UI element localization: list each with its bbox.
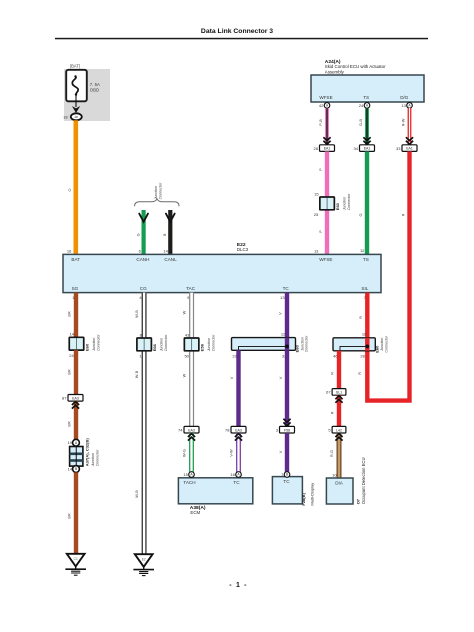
wire colour W-G xyxy=(181,449,186,457)
pin 13 xyxy=(401,103,406,108)
wire B CANL from junction connector xyxy=(168,210,172,255)
pin 50 E58 xyxy=(184,353,189,358)
wire colour G (TS) xyxy=(358,213,363,216)
pin label CANL xyxy=(164,257,177,262)
svg-text:P-B: P-B xyxy=(318,119,323,126)
pin 12 E60 (TC) xyxy=(281,332,286,337)
connector circle A (A37 pin 19) xyxy=(73,439,80,446)
box F28 multi-display xyxy=(272,477,302,504)
wire V E60 to EA3-78 xyxy=(236,350,240,426)
svg-text:E2: E2 xyxy=(142,558,146,562)
connector EA3 pin 87 xyxy=(62,395,83,402)
pin label DIA xyxy=(335,481,344,486)
svg-text:10: 10 xyxy=(332,472,337,477)
svg-text:EA1: EA1 xyxy=(324,147,331,151)
svg-text:Connector: Connector xyxy=(347,193,351,210)
wire V E60 to F58 xyxy=(285,350,289,426)
junction connector E58 (TAC) xyxy=(184,338,199,351)
svg-text:W-G: W-G xyxy=(181,449,186,457)
connector circle A (ECM TACH pin 15) xyxy=(189,472,195,478)
pin 28 E60 (SIL) xyxy=(360,354,365,359)
wire R SL1 to L42 xyxy=(337,395,341,426)
wire colour O xyxy=(67,188,72,191)
svg-text:15: 15 xyxy=(183,472,188,477)
pin label CG xyxy=(140,286,147,291)
svg-text:3: 3 xyxy=(276,427,279,432)
svg-text:SG: SG xyxy=(72,286,79,291)
svg-text:33: 33 xyxy=(396,146,401,151)
svg-text:W-B: W-B xyxy=(134,370,139,378)
svg-text:Connector: Connector xyxy=(164,334,168,351)
svg-text:E58: E58 xyxy=(200,343,205,351)
svg-text:E60: E60 xyxy=(375,345,380,353)
svg-text:C1: C1 xyxy=(74,557,78,561)
wire colour W-B 3 xyxy=(134,490,139,498)
wire W-G EA3 to ECM TACH xyxy=(189,433,194,472)
pin 14 E60 (SG) xyxy=(70,332,75,337)
chevrons into EA1 (WFSE) xyxy=(323,137,330,144)
ground point C1 xyxy=(65,554,86,575)
svg-text:Assembly: Assembly xyxy=(325,69,345,74)
wire O (orange) fuse to E22 BAT xyxy=(74,120,79,255)
box A38 ECM xyxy=(178,478,252,504)
pin 15 junction E60 xyxy=(314,192,319,197)
svg-text:SIL: SIL xyxy=(361,286,368,291)
pin 43 E58 xyxy=(185,332,190,337)
svg-text:P: P xyxy=(318,230,323,233)
fuse block shading xyxy=(64,69,110,121)
component name DLC3 xyxy=(237,247,249,252)
wire colour W 1 xyxy=(182,310,187,314)
svg-text:13: 13 xyxy=(314,249,319,254)
label E66 junction xyxy=(152,334,168,352)
svg-text:TS: TS xyxy=(363,95,369,100)
pin 32 E60 (TC) xyxy=(282,353,287,358)
component id A24(A) xyxy=(325,59,341,65)
svg-text:R: R xyxy=(330,372,335,375)
pin 19 A37 xyxy=(68,440,73,445)
svg-text:P: P xyxy=(318,168,323,171)
svg-text:24: 24 xyxy=(69,353,74,358)
svg-text:DLC3: DLC3 xyxy=(237,247,249,252)
svg-text:50: 50 xyxy=(184,353,189,358)
wire BR E22 SG to E60 xyxy=(74,293,78,338)
svg-text:V: V xyxy=(278,450,283,453)
wire R E22 SIL to E60 xyxy=(365,293,369,340)
svg-text:V-W: V-W xyxy=(228,449,233,457)
connector EA1 pin 33 xyxy=(396,145,417,152)
junction connector E60 (SIL) box xyxy=(333,338,375,351)
arrow onto CANL wire xyxy=(166,214,175,222)
pin label TC (F28) xyxy=(283,479,290,484)
chevrons into F58 xyxy=(283,419,290,426)
svg-text:BR: BR xyxy=(67,421,72,427)
chevrons into EA1 (D/G) xyxy=(406,137,413,144)
wire colour BR 2 xyxy=(67,369,72,375)
svg-text:D/G: D/G xyxy=(400,95,409,100)
svg-text:G: G xyxy=(135,233,140,236)
svg-text:(BAT): (BAT) xyxy=(70,64,81,69)
fuse OBD 7.5A body xyxy=(66,70,87,102)
pin 42 xyxy=(319,103,324,108)
wire fuse to connector xyxy=(75,96,77,108)
box A24 skid control ECU xyxy=(311,75,424,102)
svg-text:R-G: R-G xyxy=(329,450,334,457)
svg-text:ECM: ECM xyxy=(190,510,200,515)
wire colour R 2 xyxy=(330,372,335,375)
svg-text:WFSE: WFSE xyxy=(319,257,332,262)
wire colour V-W xyxy=(228,449,233,457)
svg-text:EA3: EA3 xyxy=(72,396,79,400)
svg-text:Connector: Connector xyxy=(211,334,215,351)
label (BAT) xyxy=(70,64,81,69)
wire W-B E22 CG to ground xyxy=(142,293,147,555)
label E60 junction (WFSE) xyxy=(335,193,351,211)
wire colour W-B 2 xyxy=(134,370,139,378)
svg-text:CANL: CANL xyxy=(164,257,177,262)
svg-text:F58: F58 xyxy=(284,428,290,432)
brace junction connector (CAN) xyxy=(135,199,179,206)
pin label TAC xyxy=(186,286,196,291)
svg-text:78: 78 xyxy=(225,427,230,432)
svg-text:A37(A), C32(B): A37(A), C32(B) xyxy=(85,438,90,467)
label O7 occupant detection ECU xyxy=(356,458,366,505)
wire R-W A24 D/G to EA1 xyxy=(408,108,412,144)
wire P EA1 to E22 WFSE xyxy=(325,151,329,254)
svg-text:EA3: EA3 xyxy=(235,428,242,432)
pin 16 E22 BAT xyxy=(67,248,72,253)
svg-text:G: G xyxy=(358,213,363,216)
svg-text:TACH: TACH xyxy=(183,480,195,485)
connector EA1 pin 34 xyxy=(354,145,375,152)
wire R-G L42 to DIA xyxy=(337,434,342,478)
label F28(B) multi-display xyxy=(301,483,315,506)
svg-text:Connector: Connector xyxy=(159,182,163,199)
chevrons below SL1 xyxy=(335,396,342,403)
pin 24 xyxy=(359,103,364,108)
svg-text:5: 5 xyxy=(328,427,331,432)
pin 15 ECM TACH xyxy=(183,472,188,477)
svg-text:V: V xyxy=(278,376,283,379)
pin 18 E60 (SIL) xyxy=(362,332,367,337)
wire colour B (CANL) xyxy=(162,233,167,236)
pin label TC (E22) xyxy=(283,286,290,291)
wire colour V 3 xyxy=(278,376,283,379)
wire V through E60 (TC) xyxy=(285,338,289,351)
component id A38(A) xyxy=(190,505,206,511)
pin 10 DIA xyxy=(332,472,337,477)
wire colour R (SIL) xyxy=(358,316,363,319)
page title xyxy=(201,28,273,35)
svg-text:R-W: R-W xyxy=(400,118,405,126)
pin 18 at oval xyxy=(63,114,68,119)
svg-text:13: 13 xyxy=(401,103,406,108)
label Connector (CAN brace) xyxy=(159,182,163,199)
wire R through E60 (SIL) xyxy=(365,338,369,351)
label E60 junction (TC) xyxy=(295,335,309,352)
svg-text:R: R xyxy=(330,411,335,414)
wire P-B A24 WFSE to EA1 xyxy=(325,108,329,144)
svg-text:R: R xyxy=(400,213,405,216)
connector EA3 pin 74 xyxy=(178,426,199,433)
svg-text:42: 42 xyxy=(319,103,324,108)
svg-text:28: 28 xyxy=(360,354,365,359)
label E60 junction (SIL) xyxy=(375,335,389,353)
chevrons below EA3-78 xyxy=(235,434,242,441)
header rule xyxy=(55,38,428,40)
wire colour R 4 xyxy=(330,411,335,414)
ground point E2 xyxy=(133,554,154,575)
pin label SG xyxy=(72,286,79,291)
svg-text:BR: BR xyxy=(67,513,72,519)
pin 9 TAC xyxy=(187,295,190,300)
chevrons below L42 xyxy=(335,434,342,441)
connector L42 pin 5 xyxy=(328,426,346,433)
connector circle B (A37 pin 14) xyxy=(73,466,80,473)
pin 24 E60 (SG) xyxy=(69,353,74,358)
svg-text:F28(B): F28(B) xyxy=(301,492,306,505)
wire colour P (lower) xyxy=(318,230,323,233)
junction connector E60 (WFSE) xyxy=(320,197,335,210)
junction connector E60 (TC) box xyxy=(232,338,296,351)
svg-text:Connector: Connector xyxy=(305,335,309,352)
pin label BAT xyxy=(71,257,80,262)
svg-text:R: R xyxy=(357,372,362,375)
pin 14 E22 CANL xyxy=(163,249,168,254)
svg-text:TC: TC xyxy=(283,286,290,291)
wire W E22 TAC to EA3 xyxy=(189,293,194,427)
svg-text:E66: E66 xyxy=(152,343,157,351)
wire colour BR 1 xyxy=(67,311,72,317)
svg-text:W: W xyxy=(182,310,187,314)
block A37/C32 junction connector xyxy=(70,447,83,467)
pin label WFSE (A24) xyxy=(319,95,332,100)
wire R EA1-33 down, across, up to E60 pin 28 xyxy=(367,151,409,400)
svg-text:74: 74 xyxy=(178,427,183,432)
pin 13 E22 WFSE xyxy=(314,249,319,254)
svg-text:34: 34 xyxy=(354,146,359,151)
pin 8 E66 xyxy=(140,332,143,337)
svg-text:Connector: Connector xyxy=(384,335,388,352)
pin label WFSE (E22) xyxy=(319,257,332,262)
pin label TS (A24) xyxy=(363,95,369,100)
svg-text:16: 16 xyxy=(67,248,72,253)
wire V E22 TC to E60 xyxy=(285,293,289,345)
wire G EA1 to E22 TS xyxy=(365,151,369,254)
svg-text:CG: CG xyxy=(140,286,147,291)
wire colour V 1 xyxy=(278,312,283,315)
svg-text:2D: 2D xyxy=(75,115,79,119)
svg-text:18: 18 xyxy=(362,332,367,337)
wire colour R 3 xyxy=(357,372,362,375)
pin 16 ECM TC xyxy=(230,472,235,477)
wire colour G (CANH) xyxy=(135,233,140,236)
svg-text:18: 18 xyxy=(63,114,68,119)
junction connector E60 (SG) xyxy=(69,337,84,350)
chevrons below EA3-87 xyxy=(72,402,79,409)
pin 7 SIL xyxy=(364,295,367,300)
svg-text:BR: BR xyxy=(67,369,72,375)
label A37(A), C32(B) junction connector xyxy=(85,438,100,468)
svg-text:TS: TS xyxy=(363,257,369,262)
svg-text:TC: TC xyxy=(283,479,290,484)
connector EA1 pin 28 xyxy=(314,145,335,152)
svg-text:6: 6 xyxy=(139,249,142,254)
svg-text:67: 67 xyxy=(326,390,331,395)
svg-text:TC: TC xyxy=(233,480,240,485)
wire G-B A24 TS to EA1 xyxy=(365,108,369,144)
pin label TACH xyxy=(183,480,195,485)
svg-text:BR: BR xyxy=(67,311,72,317)
wire colour R-W xyxy=(400,118,405,126)
chevrons below EA3-74 xyxy=(188,434,195,441)
svg-text:V: V xyxy=(229,376,234,379)
svg-text:DIA: DIA xyxy=(335,481,344,486)
wire BR A37 to ground xyxy=(74,472,78,554)
svg-text:Occupant Detection ECU: Occupant Detection ECU xyxy=(361,458,366,505)
pin 1 E66 xyxy=(139,353,142,358)
wire G CANH from junction connector xyxy=(142,210,146,255)
connector circle A (TS pin 24) xyxy=(364,103,370,109)
svg-text:Junction: Junction xyxy=(154,186,158,200)
component name ECM xyxy=(190,510,200,515)
pin 13 TC xyxy=(280,295,285,300)
label Junction (CAN brace) xyxy=(154,186,158,200)
svg-text:O: O xyxy=(67,188,72,191)
svg-text:W-B: W-B xyxy=(134,310,139,318)
svg-text:EA1: EA1 xyxy=(406,147,413,151)
svg-text:WFSE: WFSE xyxy=(319,95,332,100)
component name line1 xyxy=(325,64,386,69)
E60 (TC) internal bus xyxy=(239,345,289,351)
svg-text:14: 14 xyxy=(163,249,168,254)
component id E22 xyxy=(237,242,246,248)
svg-text:B: B xyxy=(162,233,167,236)
svg-text:Junction: Junction xyxy=(91,453,95,467)
wire colour BR 4 xyxy=(67,513,72,519)
wire V-W EA3 to ECM TC xyxy=(236,433,241,472)
pin 4 CG xyxy=(139,295,142,300)
pin label D/G (A24) xyxy=(400,95,409,100)
svg-text:BAT: BAT xyxy=(71,257,80,262)
wire colour W 2 xyxy=(182,373,187,377)
connector circle A (WFSE pin 42) xyxy=(324,103,330,109)
wire colour R-G xyxy=(329,450,334,457)
svg-text:W-B: W-B xyxy=(134,490,139,498)
box E22 DLC3 xyxy=(63,254,381,292)
connector circle B (F28 TC pin 7) xyxy=(284,472,290,478)
page number xyxy=(229,582,247,589)
connector SL1 pin 67 xyxy=(326,389,346,396)
svg-text:25: 25 xyxy=(314,212,319,217)
svg-text:R: R xyxy=(358,316,363,319)
component name line2 xyxy=(325,69,345,74)
svg-text:14: 14 xyxy=(70,332,75,337)
pin 25 junction E60 xyxy=(314,212,319,217)
connector F58 pin 3 xyxy=(276,426,295,433)
pin 22 E60 (TC) xyxy=(232,353,237,358)
connector EA3 pin 78 xyxy=(225,426,246,433)
fuse name OBD xyxy=(90,87,99,92)
svg-text:13: 13 xyxy=(280,295,285,300)
wire colour V 2 xyxy=(229,376,234,379)
svg-text:V: V xyxy=(278,312,283,315)
pin 6 E22 CANH xyxy=(139,249,142,254)
pin 46 E60 (SIL) xyxy=(333,354,338,359)
wire BR EA3 to A37 xyxy=(74,401,78,439)
pin label SIL xyxy=(361,286,368,291)
pin label CANH xyxy=(136,257,149,262)
wire V F58 to multi-display TC xyxy=(285,433,289,472)
wire colour W-B 1 xyxy=(134,310,139,318)
pin 14 A37 xyxy=(68,466,73,471)
svg-text:28: 28 xyxy=(314,146,319,151)
pin 1 SG xyxy=(72,295,75,300)
E60 (SIL) internal bus xyxy=(340,345,369,351)
wire colour P-B xyxy=(318,119,323,126)
svg-text:E60: E60 xyxy=(85,343,90,351)
wire colour V 4 xyxy=(278,450,283,453)
svg-text:Connector: Connector xyxy=(96,334,100,351)
chevrons into EA1 (TS) xyxy=(363,137,370,144)
wire colour G-B xyxy=(358,119,363,126)
wire R E60 to SL1 xyxy=(337,351,341,389)
svg-text:43: 43 xyxy=(185,332,190,337)
svg-text:E60: E60 xyxy=(295,344,300,352)
wire colour R (D/G riser) xyxy=(400,213,405,216)
label E58 junction xyxy=(200,334,216,352)
connector circle A (ECM TC pin 16) xyxy=(236,472,242,478)
svg-text:G-B: G-B xyxy=(358,119,363,126)
box DIA occupant detection ECU xyxy=(326,478,353,504)
arrow onto CANH wire xyxy=(139,214,148,222)
svg-text:15: 15 xyxy=(314,192,319,197)
pin 7 F28 TC xyxy=(281,472,284,477)
wire BR E60 to EA3 xyxy=(74,350,78,395)
pin 12 E22 TS xyxy=(360,248,365,253)
svg-text:24: 24 xyxy=(359,103,364,108)
svg-text:SL1: SL1 xyxy=(336,391,342,395)
svg-text:16: 16 xyxy=(230,472,235,477)
svg-text:- 1 -: - 1 - xyxy=(229,582,247,589)
svg-text:EA3: EA3 xyxy=(188,428,195,432)
wire colour BR 3 xyxy=(67,421,72,427)
svg-text:E60: E60 xyxy=(335,202,340,210)
connector circle A (D/G pin 13) xyxy=(407,103,413,109)
fuse element squiggle xyxy=(72,75,78,96)
svg-text:EA1: EA1 xyxy=(364,147,371,151)
oval connector 2D xyxy=(71,113,82,120)
svg-text:OBD: OBD xyxy=(90,87,99,92)
svg-text:TAC: TAC xyxy=(186,286,196,291)
svg-text:Data Link Connector 3: Data Link Connector 3 xyxy=(201,28,273,35)
fuse value 7.5A xyxy=(90,82,100,87)
svg-text:Multi-Display: Multi-Display xyxy=(309,483,314,506)
arrowhead into connector 2D xyxy=(72,106,80,113)
svg-text:W: W xyxy=(182,373,187,377)
svg-text:12: 12 xyxy=(281,332,286,337)
label E60 junction (SG) xyxy=(85,334,101,352)
svg-text:L42: L42 xyxy=(336,428,342,432)
wire colour P (upper) xyxy=(318,168,323,171)
junction connector E66 (CG) xyxy=(137,338,152,351)
svg-text:Connector: Connector xyxy=(95,449,99,466)
svg-text:12: 12 xyxy=(360,248,365,253)
pin label TS (E22) xyxy=(363,257,369,262)
pin label TC (ECM) xyxy=(233,480,240,485)
svg-text:87: 87 xyxy=(62,396,67,401)
svg-text:CANH: CANH xyxy=(136,257,149,262)
